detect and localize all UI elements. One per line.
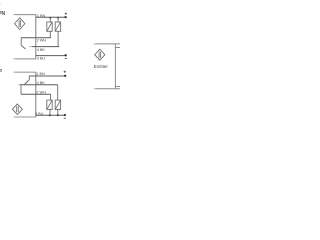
terminal dot -UB (top circuit) [65,54,67,56]
emitter box right edge [114,44,116,89]
svg-text:1 BN: 1 BN [37,14,46,18]
receiver box 2 top edge [13,71,36,73]
load R2 top lead [57,17,59,22]
terminal dot -UB (bottom circuit) [64,114,66,116]
switch feed vertical (top circuit) [20,38,22,46]
receiver box 1 right edge [35,15,37,59]
plus sign +UB (bottom circuit) [64,71,66,73]
switch blade (bottom circuit) [24,80,29,85]
diamond D2 inner bars [17,106,19,112]
svg-text:2 WH: 2 WH [36,90,46,94]
emitter wire stub upper right [115,47,120,49]
minus sign -UB (bottom circuit) [64,117,66,119]
load R1 bottom lead to 2 WH [49,31,51,38]
receiver box 2 right edge [35,72,37,117]
load resistor R4 (rect with diagonal) [55,100,60,109]
terminal dot +UB (bottom circuit) [64,75,66,77]
junction dot at load R1 lead [49,17,51,19]
svg-text:4 BK: 4 BK [37,48,46,52]
diamond D1 inner bars [19,20,21,27]
wire 3 BU (top circuit, -UB) [36,55,66,57]
emitter LED diamond D3 [95,49,105,60]
svg-text:3 BU: 3 BU [37,57,46,61]
wire 4 BK faint inner tail [29,46,32,48]
load R4 bottom lead [57,110,59,116]
wire 2 WH (top circuit, test input) [21,37,51,39]
load resistor R1 (rect with diagonal) [47,22,52,31]
photodiode diamond D1 [15,18,25,30]
wire 2 WH (bottom circuit) [21,93,51,95]
plus sign +UB (top circuit) [65,13,67,15]
receiver box 2 bottom edge [13,116,36,118]
svg-text:1 BN: 1 BN [36,72,45,76]
wire 2 WH corner down to load R3 [50,94,52,100]
emitter box top edge [93,43,120,45]
switch blade (top circuit) [21,45,25,49]
wire 4 BK corner down to load R4 [57,85,59,100]
svg-text:4 BK: 4 BK [37,81,46,85]
receiver box 1 top edge [13,14,36,16]
load R1 top lead [49,17,51,22]
junction dot at load R2 lead [57,17,59,19]
wire 4 BK (top circuit, output) [32,46,60,48]
wire 3 BU (bottom circuit, -UB) [36,114,65,116]
receiver box 1 bottom edge [13,58,36,60]
terminal dot +UB (top circuit) [64,16,66,18]
svg-text:Emitter: Emitter [94,64,109,69]
junction dot at load R4 lead [57,114,59,116]
diamond D3 inner bars [99,52,101,58]
load R3 bottom lead [49,110,51,116]
minus sign -UB (top circuit) [65,57,67,59]
svg-text:PN: PN [0,11,6,17]
switch riser to 2 WH (bottom circuit) [20,85,22,94]
load resistor R2 (rect with diagonal) [55,22,60,31]
load R2 bottom lead to 4 BK [57,31,59,46]
photodiode diamond D2 [12,104,22,115]
svg-text:2 WH: 2 WH [37,39,47,43]
wire 1 BN (bottom circuit, +UB) [29,75,65,77]
load resistor R3 (rect with diagonal) [47,100,52,109]
emitter box bottom edge [93,88,120,90]
junction dot at load R3 lead [49,114,51,116]
svg-text:3 BU: 3 BU [35,112,44,116]
wire 1 BN (top circuit, +UB) [36,16,66,18]
wire 4 BK (bottom circuit, output) [18,84,57,86]
emitter wire stub lower right [115,85,120,87]
switch feed nub (bottom circuit) [28,76,30,80]
